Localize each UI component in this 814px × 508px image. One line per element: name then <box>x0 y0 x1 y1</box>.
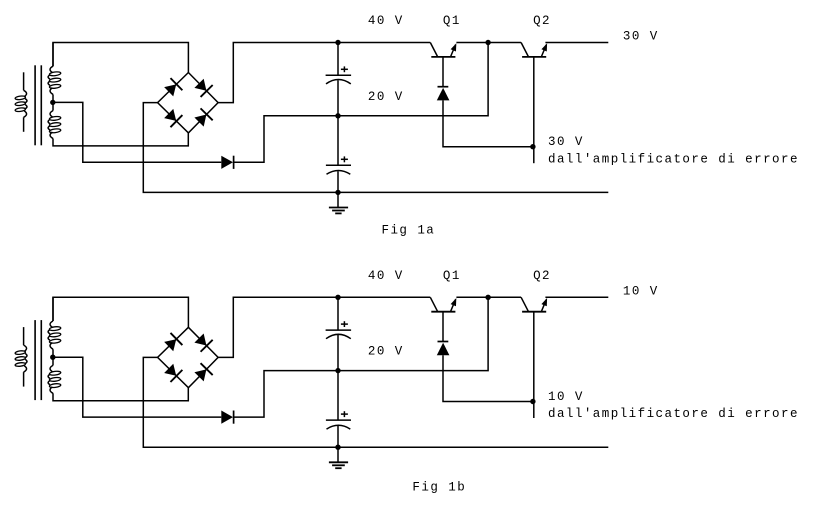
svg-text:dall'amplificatore di errore: dall'amplificatore di errore <box>548 152 799 166</box>
svg-text:Fig 1a: Fig 1a <box>382 224 436 238</box>
svg-text:Fig 1b: Fig 1b <box>412 480 466 494</box>
svg-text:10 V: 10 V <box>548 390 584 404</box>
svg-text:Q2: Q2 <box>533 14 551 28</box>
svg-text:20 V: 20 V <box>368 345 404 359</box>
svg-text:dall'amplificatore di errore: dall'amplificatore di errore <box>548 407 799 421</box>
svg-text:10 V: 10 V <box>623 285 659 299</box>
svg-text:20 V: 20 V <box>368 90 404 104</box>
svg-text:Q1: Q1 <box>443 269 461 283</box>
svg-text:Q1: Q1 <box>443 14 461 28</box>
svg-text:30 V: 30 V <box>623 30 659 44</box>
svg-text:40 V: 40 V <box>368 14 404 28</box>
svg-text:Q2: Q2 <box>533 269 551 283</box>
svg-text:40 V: 40 V <box>368 269 404 283</box>
svg-text:30 V: 30 V <box>548 135 584 149</box>
